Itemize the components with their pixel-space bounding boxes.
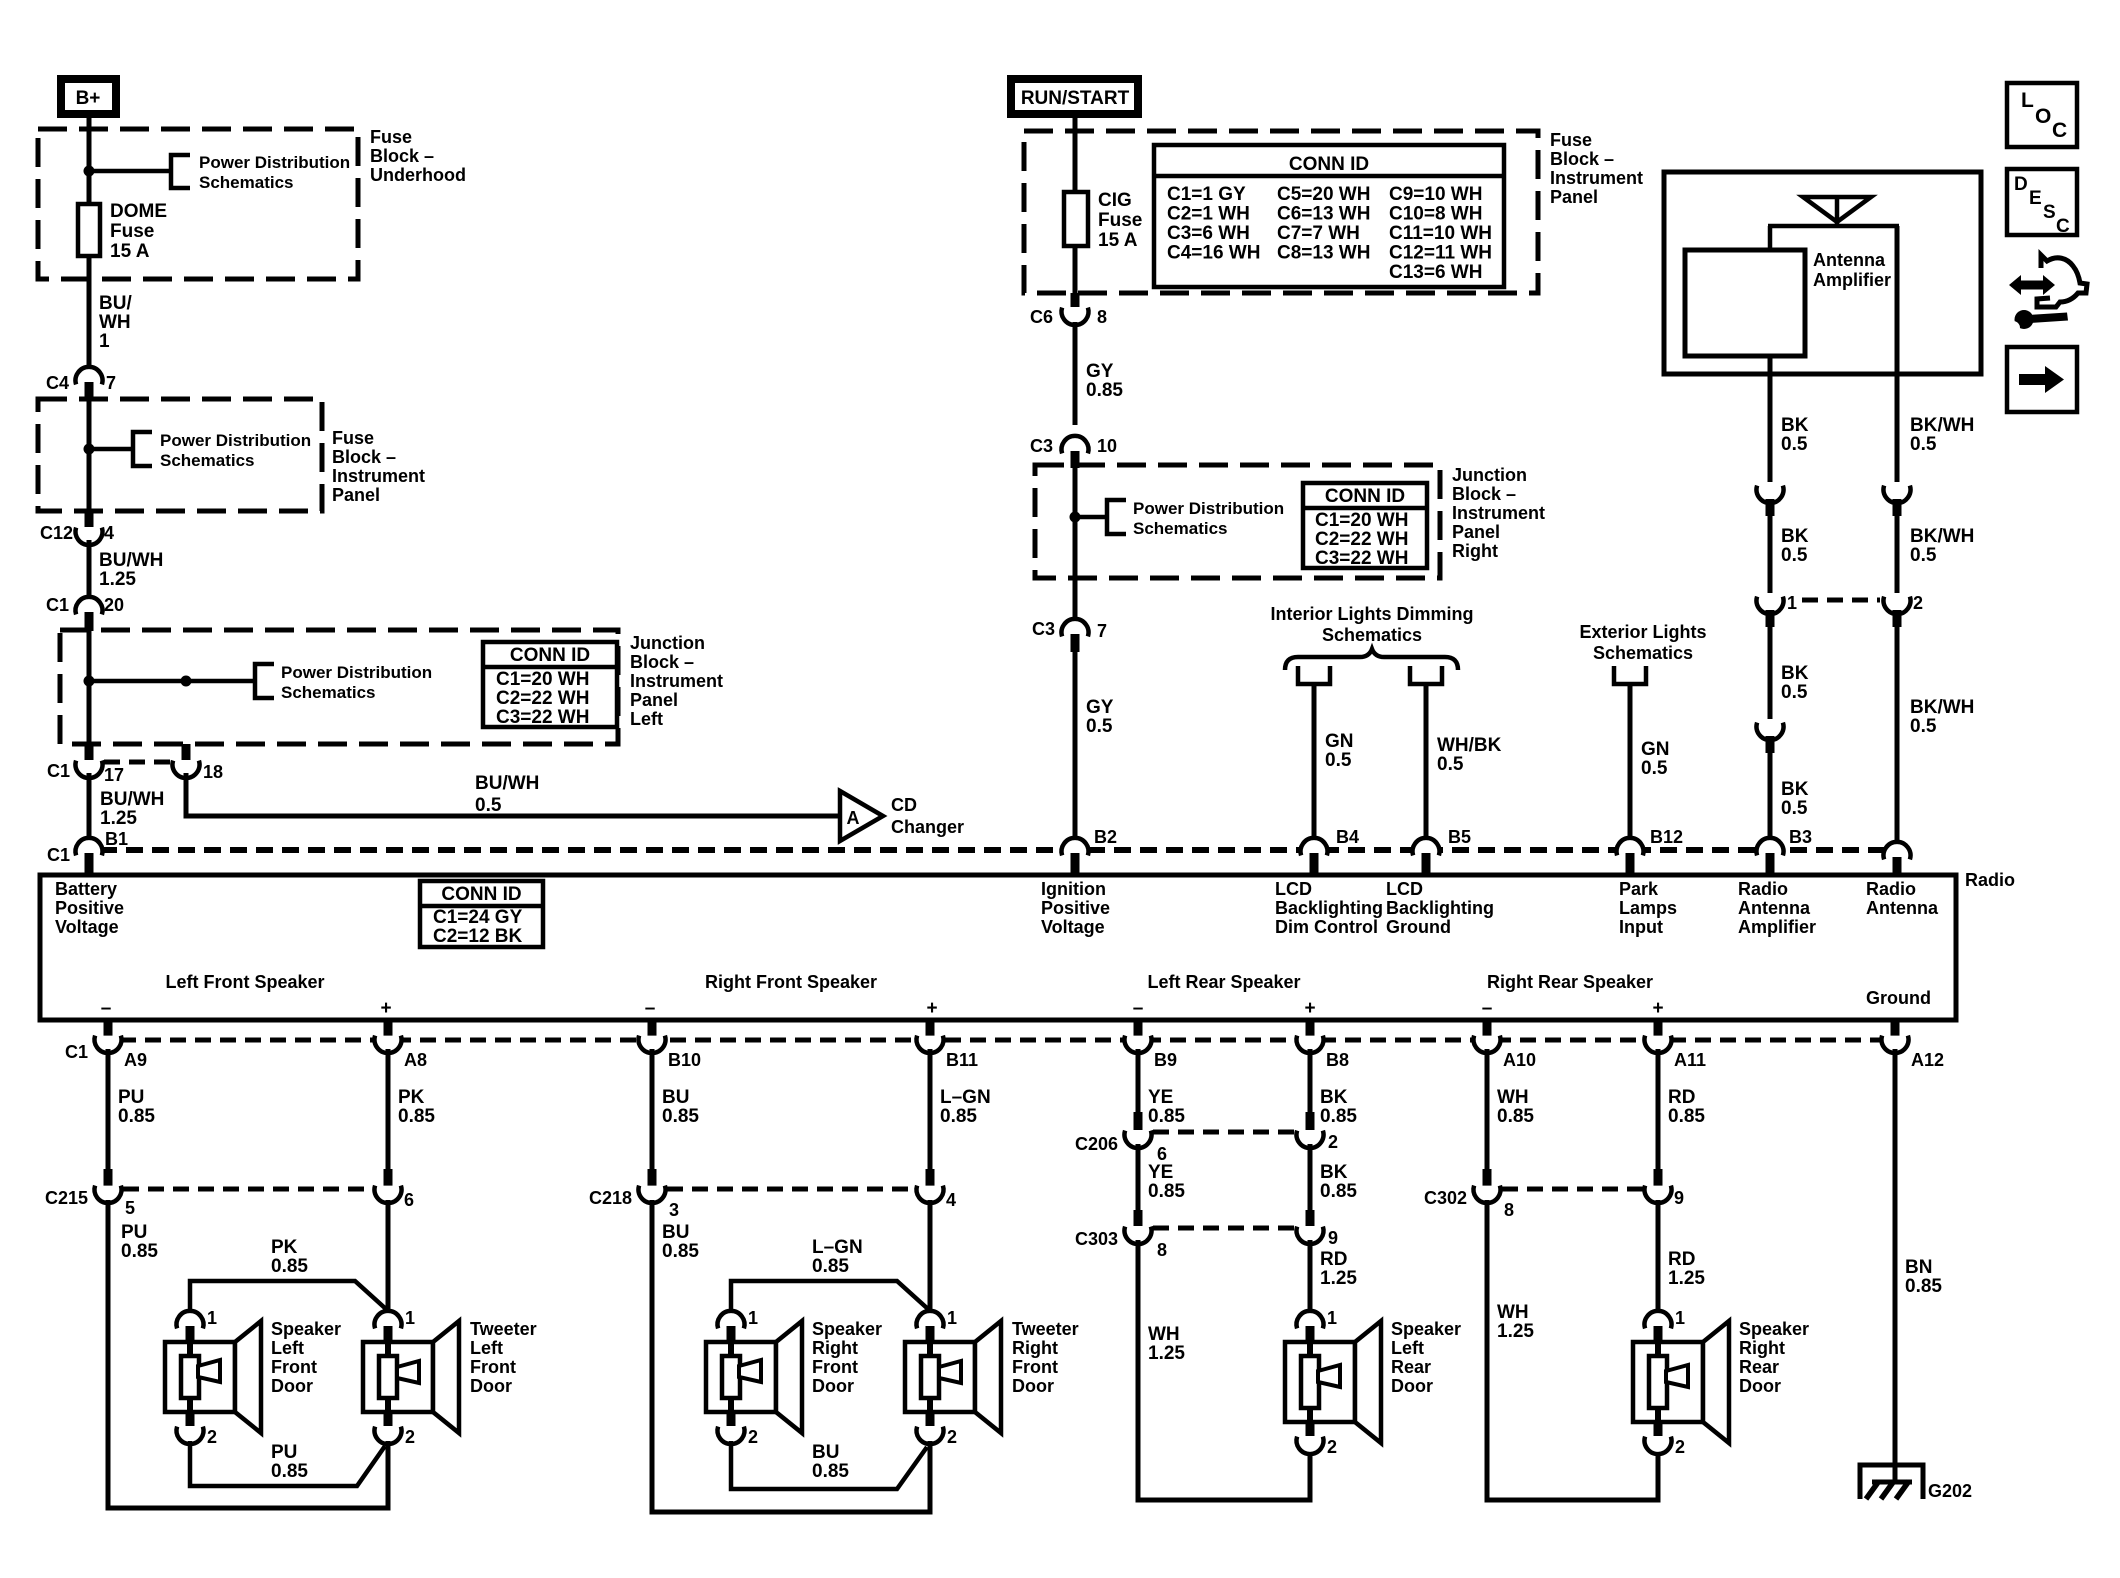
- wire C3-7 to radio B2: [1073, 651, 1078, 844]
- wire bottom loop right front: [650, 1510, 933, 1515]
- svg-text:WH: WH: [99, 312, 131, 333]
- svg-text:1.25: 1.25: [100, 808, 137, 829]
- node junction B: [181, 676, 192, 687]
- tweeter right front door body: [905, 1342, 975, 1412]
- svg-text:1.25: 1.25: [1320, 1268, 1357, 1289]
- tweeter pin 1 connector: [375, 1311, 402, 1328]
- speaker pin 2 connector: [186, 1412, 195, 1426]
- svg-text:B3: B3: [1789, 827, 1812, 847]
- svg-text:4: 4: [946, 1190, 956, 1210]
- svg-text:Right: Right: [1452, 541, 1498, 561]
- svg-text:A8: A8: [404, 1050, 427, 1070]
- CD changer off-page triangle A: [840, 791, 883, 841]
- svg-text:Backlighting: Backlighting: [1386, 898, 1494, 918]
- svg-text:10: 10: [1097, 436, 1117, 456]
- svg-text:18: 18: [203, 762, 223, 782]
- wire tweeter pin2 down: [928, 1441, 933, 1514]
- node junction: [1070, 512, 1081, 523]
- wire BK/WH from antenna: [1895, 226, 1900, 482]
- wire C12 to C1: [87, 540, 92, 598]
- svg-text:E: E: [2029, 188, 2042, 209]
- svg-text:PU: PU: [271, 1442, 297, 1463]
- wire through fuse block IP: [87, 399, 92, 512]
- svg-text:C206: C206: [1075, 1134, 1118, 1154]
- svg-text:CONN ID: CONN ID: [441, 884, 521, 905]
- node junction in underhood block: [84, 166, 95, 177]
- svg-text:0.5: 0.5: [1781, 434, 1808, 455]
- svg-text:Power Distribution: Power Distribution: [281, 663, 432, 682]
- svg-text:C215: C215: [45, 1188, 88, 1208]
- wire C1-17 to radio B1: [87, 773, 92, 843]
- wire speaker pin 2 down: [1656, 1452, 1661, 1502]
- svg-text:Schematics: Schematics: [1322, 625, 1422, 645]
- dashed link pins 1-2: [1802, 598, 1880, 603]
- connector C1 pin A12: [1891, 1020, 1900, 1036]
- svg-text:A: A: [847, 808, 860, 828]
- wire BK/WH to radio antenna: [1895, 627, 1900, 844]
- svg-text:Tweeter: Tweeter: [470, 1319, 537, 1339]
- dashed link C206: [1153, 1130, 1295, 1135]
- svg-text:Block –: Block –: [630, 652, 694, 672]
- wire B11 L-GN down: [928, 1049, 933, 1170]
- svg-text:C302: C302: [1424, 1188, 1467, 1208]
- svg-text:+: +: [926, 998, 937, 1019]
- svg-text:Block –: Block –: [1550, 149, 1614, 169]
- connector at radio antenna input: [1884, 842, 1911, 859]
- svg-text:Antenna: Antenna: [1738, 898, 1811, 918]
- wire C6 to C3: [1073, 322, 1078, 425]
- icon vehicle wrench: [2009, 275, 2055, 295]
- svg-text:Speaker: Speaker: [1391, 1319, 1461, 1339]
- svg-text:Ground: Ground: [1386, 917, 1451, 937]
- svg-text:Lamps: Lamps: [1619, 898, 1677, 918]
- svg-text:C3=22 WH: C3=22 WH: [496, 707, 589, 728]
- connector C1 pin A8: [384, 1020, 393, 1036]
- inline connector BK/WH: [1884, 486, 1911, 503]
- svg-text:Power Distribution: Power Distribution: [160, 431, 311, 450]
- connector C215 pin 5: [104, 1169, 113, 1187]
- connector C3 pin 10: [1062, 436, 1089, 453]
- svg-text:1: 1: [748, 1308, 758, 1328]
- svg-text:WH: WH: [1497, 1087, 1529, 1108]
- off-page reference exterior lights: [1614, 666, 1646, 684]
- svg-text:B1: B1: [105, 829, 128, 849]
- svg-text:B9: B9: [1154, 1050, 1177, 1070]
- connector C303 pin 9: [1306, 1210, 1315, 1226]
- svg-text:CONN ID: CONN ID: [1325, 486, 1405, 507]
- svg-text:0.5: 0.5: [475, 795, 502, 816]
- svg-text:C6: C6: [1030, 307, 1053, 327]
- svg-text:Interior Lights Dimming: Interior Lights Dimming: [1270, 604, 1473, 624]
- dashed link C303: [1153, 1226, 1295, 1231]
- svg-text:0.5: 0.5: [1086, 716, 1113, 737]
- svg-text:Block –: Block –: [370, 146, 434, 166]
- speaker pin 2 connector: [727, 1412, 736, 1426]
- wire bottom loop left front: [106, 1506, 391, 1511]
- svg-text:Left Rear Speaker: Left Rear Speaker: [1147, 972, 1300, 992]
- svg-text:Door: Door: [812, 1376, 854, 1396]
- conn id table fuse block IP: [1154, 145, 1504, 287]
- svg-text:C1=20 WH: C1=20 WH: [496, 669, 589, 690]
- connector C1 pin B9: [1134, 1020, 1143, 1036]
- wire tweeter pin2 down: [386, 1441, 391, 1510]
- svg-text:Block –: Block –: [1452, 484, 1516, 504]
- speaker body: [706, 1342, 776, 1412]
- svg-text:Left: Left: [1391, 1338, 1424, 1358]
- power distribution schematics reference bracket: [1107, 500, 1126, 534]
- wire to power distribution reference: [89, 169, 171, 174]
- power distribution schematics reference bracket: [133, 432, 152, 466]
- svg-text:Antenna: Antenna: [1813, 250, 1886, 270]
- speaker pin 2 connector: [1306, 1422, 1315, 1436]
- wire A11 RD down: [1656, 1049, 1661, 1170]
- svg-text:L–GN: L–GN: [812, 1237, 863, 1258]
- wire A8 PK down: [386, 1049, 391, 1170]
- wire bottom loop left rear: [1136, 1498, 1313, 1503]
- wire C1-18 to CD changer: [186, 773, 838, 816]
- svg-text:Rear: Rear: [1739, 1357, 1779, 1377]
- svg-text:Speaker: Speaker: [812, 1319, 882, 1339]
- svg-text:Front: Front: [1012, 1357, 1058, 1377]
- wire GN to radio B12: [1628, 684, 1633, 844]
- svg-text:0.5: 0.5: [1910, 545, 1937, 566]
- svg-text:Panel: Panel: [332, 485, 380, 505]
- wire BK/WH segment 2: [1895, 516, 1900, 593]
- svg-text:C8=13 WH: C8=13 WH: [1277, 243, 1370, 264]
- svg-text:Door: Door: [1391, 1376, 1433, 1396]
- svg-text:Door: Door: [271, 1376, 313, 1396]
- svg-text:RUN/START: RUN/START: [1021, 88, 1130, 109]
- svg-text:Panel: Panel: [1452, 522, 1500, 542]
- connector C1 pin 18: [182, 744, 191, 760]
- svg-text:0.5: 0.5: [1641, 758, 1668, 779]
- wire through junction block: [87, 630, 92, 744]
- svg-text:1.25: 1.25: [99, 569, 136, 590]
- svg-text:C2=12 BK: C2=12 BK: [433, 926, 523, 947]
- antenna symbol: [1803, 197, 1871, 222]
- svg-text:Right: Right: [812, 1338, 858, 1358]
- svg-text:G202: G202: [1928, 1481, 1972, 1501]
- fuse DOME 15A: [78, 204, 100, 256]
- wire C215-5 to bottom loop: [106, 1200, 111, 1510]
- svg-text:B8: B8: [1326, 1050, 1349, 1070]
- wire speaker pin2 to tweeter pin2: [190, 1441, 385, 1486]
- junction block instrument panel left dashed box: [60, 630, 618, 744]
- svg-text:GN: GN: [1325, 731, 1354, 752]
- wire A12 BN to ground: [1893, 1049, 1898, 1482]
- svg-text:B10: B10: [668, 1050, 701, 1070]
- svg-text:0.5: 0.5: [1437, 754, 1464, 775]
- svg-text:Park: Park: [1619, 879, 1659, 899]
- svg-text:BU/WH: BU/WH: [99, 550, 163, 571]
- svg-text:Fuse: Fuse: [1098, 210, 1142, 231]
- icon box LOC: [2007, 83, 2077, 147]
- svg-text:BK: BK: [1781, 663, 1809, 684]
- svg-text:0.5: 0.5: [1781, 545, 1808, 566]
- svg-text:15 A: 15 A: [1098, 230, 1138, 251]
- wire branch PK to speaker pin 1: [190, 1281, 386, 1310]
- connector C6 pin 8: [1071, 293, 1080, 307]
- svg-text:BK/WH: BK/WH: [1910, 415, 1974, 436]
- svg-text:Positive: Positive: [55, 898, 124, 918]
- svg-text:WH: WH: [1497, 1302, 1529, 1323]
- wire C302-8 to bottom loop: [1485, 1200, 1490, 1502]
- svg-text:1.25: 1.25: [1668, 1268, 1705, 1289]
- inline connector BK: [1757, 486, 1784, 503]
- connector C303 pin 8: [1134, 1210, 1143, 1226]
- svg-text:Backlighting: Backlighting: [1275, 898, 1383, 918]
- svg-text:0.85: 0.85: [1320, 1181, 1357, 1202]
- svg-text:BU/WH: BU/WH: [475, 773, 539, 794]
- svg-text:BK: BK: [1781, 415, 1809, 436]
- icon box DESC: [2007, 169, 2077, 235]
- connector C302 pin 8: [1483, 1169, 1492, 1187]
- svg-text:BU: BU: [662, 1222, 689, 1243]
- svg-text:1: 1: [99, 331, 110, 352]
- svg-text:2: 2: [947, 1427, 957, 1447]
- svg-text:C2=22 WH: C2=22 WH: [496, 688, 589, 709]
- brace over interior lights references: [1285, 649, 1458, 670]
- svg-text:YE: YE: [1148, 1087, 1173, 1108]
- svg-text:CONN ID: CONN ID: [1289, 154, 1369, 175]
- tweeter left front door body: [363, 1342, 433, 1412]
- svg-text:Right: Right: [1739, 1338, 1785, 1358]
- svg-text:BK: BK: [1781, 779, 1809, 800]
- wire A10 WH down: [1485, 1049, 1490, 1170]
- svg-text:LCD: LCD: [1275, 879, 1312, 899]
- wire A9 PU down: [106, 1049, 111, 1170]
- connector C4 pin 7: [75, 367, 102, 384]
- wire to power distribution reference: [89, 447, 133, 452]
- svg-text:Power Distribution: Power Distribution: [1133, 499, 1284, 518]
- dashed link C215: [123, 1187, 373, 1192]
- connector C206 pin 6: [1134, 1112, 1143, 1130]
- connector C218 pin 4: [926, 1169, 935, 1187]
- svg-text:Door: Door: [470, 1376, 512, 1396]
- svg-text:2: 2: [207, 1427, 217, 1447]
- svg-text:C12=11 WH: C12=11 WH: [1389, 243, 1492, 264]
- svg-text:A9: A9: [124, 1050, 147, 1070]
- svg-text:C218: C218: [589, 1188, 632, 1208]
- fuse CIG 15A: [1064, 192, 1088, 246]
- svg-text:BN: BN: [1905, 1257, 1932, 1278]
- conn id table junction block left: [483, 642, 617, 727]
- svg-text:BK: BK: [1320, 1087, 1348, 1108]
- connector C218 pin 3: [648, 1169, 657, 1187]
- svg-text:–: –: [101, 998, 112, 1019]
- svg-text:CD: CD: [891, 795, 917, 815]
- svg-text:WH/BK: WH/BK: [1437, 735, 1502, 756]
- svg-text:GY: GY: [1086, 697, 1114, 718]
- svg-text:0.85: 0.85: [271, 1461, 308, 1482]
- svg-text:3: 3: [669, 1200, 679, 1220]
- wire GN to radio B4: [1312, 684, 1317, 844]
- svg-text:Voltage: Voltage: [55, 917, 119, 937]
- svg-text:9: 9: [1328, 1228, 1338, 1248]
- wire C303-9 to speaker pin 1: [1308, 1240, 1313, 1312]
- svg-text:Left: Left: [271, 1338, 304, 1358]
- svg-text:0.85: 0.85: [1320, 1106, 1357, 1127]
- svg-text:C1: C1: [46, 595, 69, 615]
- svg-text:2: 2: [1675, 1437, 1685, 1457]
- svg-text:+: +: [380, 998, 391, 1019]
- svg-text:0.85: 0.85: [271, 1256, 308, 1277]
- wire speaker pin 2 down: [1308, 1452, 1313, 1502]
- svg-text:C11=10 WH: C11=10 WH: [1389, 223, 1492, 244]
- svg-text:Schematics: Schematics: [1593, 643, 1693, 663]
- svg-text:C1: C1: [65, 1042, 88, 1062]
- svg-text:GY: GY: [1086, 361, 1114, 382]
- svg-text:B+: B+: [76, 88, 101, 109]
- connector C1 pin A11: [1654, 1020, 1663, 1036]
- connector C1 pin A9: [104, 1020, 113, 1036]
- svg-text:CONN ID: CONN ID: [510, 645, 590, 666]
- connector C1 pin A10: [1483, 1020, 1492, 1036]
- svg-text:C3: C3: [1030, 436, 1053, 456]
- speaker pin 1 connector (Speaker Right Rear): [1645, 1311, 1672, 1328]
- svg-text:C13=6 WH: C13=6 WH: [1389, 262, 1482, 283]
- svg-text:0.85: 0.85: [1497, 1106, 1534, 1127]
- svg-text:Front: Front: [271, 1357, 317, 1377]
- svg-text:Fuse: Fuse: [1550, 130, 1592, 150]
- svg-text:0.5: 0.5: [1910, 434, 1937, 455]
- svg-text:RD: RD: [1668, 1087, 1695, 1108]
- conn id table radio: [420, 881, 543, 947]
- wire BK from amplifier: [1768, 356, 1773, 482]
- svg-text:2: 2: [748, 1427, 758, 1447]
- svg-text:Door: Door: [1012, 1376, 1054, 1396]
- wire C215-6 to tweeter pin 1: [386, 1200, 391, 1312]
- svg-text:0.5: 0.5: [1325, 750, 1352, 771]
- svg-text:BU/WH: BU/WH: [100, 789, 164, 810]
- svg-text:PU: PU: [121, 1222, 147, 1243]
- svg-text:PK: PK: [271, 1237, 298, 1258]
- power symbol RUN/START: [1011, 79, 1138, 114]
- svg-text:A10: A10: [1503, 1050, 1536, 1070]
- svg-text:1.25: 1.25: [1497, 1321, 1534, 1342]
- svg-text:0.85: 0.85: [662, 1241, 699, 1262]
- svg-text:Changer: Changer: [891, 817, 964, 837]
- svg-text:BU: BU: [812, 1442, 839, 1463]
- svg-text:1: 1: [947, 1308, 957, 1328]
- connector C1 pin B10: [648, 1020, 657, 1036]
- connector C1 pin 17: [85, 744, 94, 760]
- svg-text:B2: B2: [1094, 827, 1117, 847]
- junction block instrument panel right dashed box: [1035, 465, 1440, 578]
- speaker pin 1 connector (Speaker Left Front): [176, 1311, 203, 1328]
- svg-text:6: 6: [1157, 1144, 1167, 1164]
- svg-text:2: 2: [1913, 593, 1923, 613]
- antenna amplifier inner box: [1685, 250, 1805, 356]
- svg-text:Instrument: Instrument: [1550, 168, 1643, 188]
- svg-text:8: 8: [1097, 307, 1107, 327]
- dashed link C218: [667, 1187, 917, 1192]
- connector C302 pin 9: [1654, 1169, 1663, 1187]
- connector C1 pin B8: [1306, 1020, 1315, 1036]
- svg-text:2: 2: [1328, 1132, 1338, 1152]
- svg-text:CIG: CIG: [1098, 190, 1132, 211]
- svg-text:0.85: 0.85: [1148, 1181, 1185, 1202]
- svg-text:Panel: Panel: [630, 690, 678, 710]
- svg-text:Panel: Panel: [1550, 187, 1598, 207]
- svg-text:C1: C1: [47, 761, 70, 781]
- wire B8 BK down: [1308, 1049, 1313, 1117]
- svg-text:Amplifier: Amplifier: [1813, 270, 1891, 290]
- svg-text:C303: C303: [1075, 1229, 1118, 1249]
- svg-text:Underhood: Underhood: [370, 165, 466, 185]
- speaker pin 1 connector (Speaker Right Front): [718, 1311, 745, 1328]
- speaker pin 1 connector (Speaker Left Rear): [1297, 1311, 1324, 1328]
- svg-text:0.85: 0.85: [1668, 1106, 1705, 1127]
- icon box arrow: [2007, 347, 2077, 412]
- connector C12 pin 4: [85, 511, 94, 527]
- svg-text:Right Front Speaker: Right Front Speaker: [705, 972, 877, 992]
- svg-text:Fuse: Fuse: [332, 428, 374, 448]
- connector C215 pin 6: [384, 1169, 393, 1187]
- svg-text:B12: B12: [1650, 827, 1683, 847]
- svg-text:DOME: DOME: [110, 201, 167, 222]
- svg-text:0.85: 0.85: [812, 1256, 849, 1277]
- svg-text:Front: Front: [470, 1357, 516, 1377]
- svg-text:Ground: Ground: [1866, 988, 1931, 1008]
- svg-text:5: 5: [125, 1198, 135, 1218]
- svg-text:B11: B11: [946, 1050, 978, 1070]
- svg-text:17: 17: [104, 765, 124, 785]
- svg-text:C1: C1: [47, 845, 70, 865]
- connector C206 pin 2: [1306, 1112, 1315, 1130]
- wire B+ to fuse block underhood: [87, 118, 92, 204]
- svg-text:C: C: [2052, 119, 2067, 142]
- svg-text:0.5: 0.5: [1910, 716, 1937, 737]
- fuse block instrument panel dashed box: [1024, 131, 1538, 293]
- svg-text:B5: B5: [1448, 827, 1471, 847]
- svg-text:C4=16 WH: C4=16 WH: [1167, 243, 1260, 264]
- wire C303-8 to bottom loop: [1136, 1240, 1141, 1502]
- conn id table junction block right: [1303, 483, 1427, 568]
- svg-text:Fuse: Fuse: [370, 127, 412, 147]
- svg-text:BU/: BU/: [99, 293, 132, 314]
- svg-text:Junction: Junction: [630, 633, 705, 653]
- svg-text:Radio: Radio: [1738, 879, 1788, 899]
- svg-text:D: D: [2014, 174, 2028, 195]
- svg-text:20: 20: [104, 595, 124, 615]
- svg-text:Door: Door: [1739, 1376, 1781, 1396]
- svg-text:0.5: 0.5: [1781, 798, 1808, 819]
- svg-text:2: 2: [1327, 1437, 1337, 1457]
- svg-text:C6=13 WH: C6=13 WH: [1277, 204, 1370, 225]
- wire C206-6 down: [1136, 1144, 1141, 1212]
- node junction in IP block: [84, 444, 95, 455]
- svg-text:PU: PU: [118, 1087, 144, 1108]
- svg-text:S: S: [2043, 202, 2056, 223]
- svg-text:1: 1: [405, 1308, 415, 1328]
- svg-text:Schematics: Schematics: [199, 173, 294, 192]
- svg-text:2: 2: [405, 1427, 415, 1447]
- svg-text:C2=22 WH: C2=22 WH: [1315, 529, 1408, 550]
- wire branch L-GN to speaker pin 1: [731, 1281, 928, 1310]
- svg-text:Right Rear Speaker: Right Rear Speaker: [1487, 972, 1653, 992]
- svg-text:BU: BU: [662, 1087, 689, 1108]
- power distribution schematics reference bracket: [171, 155, 190, 188]
- svg-text:C3=6 WH: C3=6 WH: [1167, 223, 1250, 244]
- wire junction to bracket: [89, 679, 255, 684]
- svg-text:+: +: [1652, 998, 1663, 1019]
- off-page reference interior lights dimming (GN): [1298, 666, 1330, 684]
- ground G202 symbol: [1860, 1465, 1923, 1499]
- svg-text:1.25: 1.25: [1148, 1343, 1185, 1364]
- svg-text:4: 4: [104, 523, 114, 543]
- connector pin 2 BK/WH: [1884, 597, 1911, 614]
